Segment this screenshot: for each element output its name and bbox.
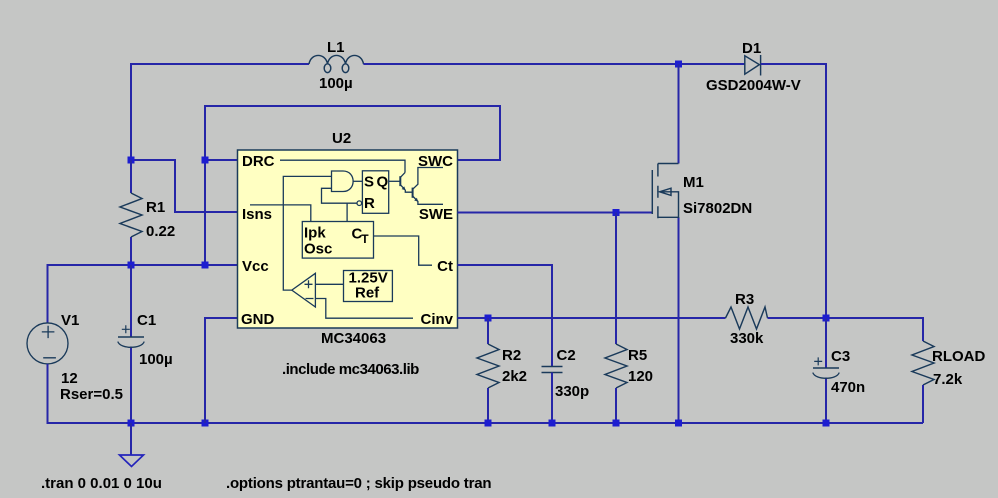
U2 internal: SR latch box — [357, 171, 389, 214]
svg-text:MC34063: MC34063 — [321, 330, 386, 347]
wire GND pin to ground rail — [205, 318, 238, 423]
node junction ground rail / R2 — [485, 420, 492, 427]
svg-text:Isns: Isns — [242, 206, 272, 223]
wire top rail right (D1 to output corner) — [761, 64, 826, 318]
svg-text:GSD2004W-V: GSD2004W-V — [706, 77, 801, 94]
svg-text:Cinv: Cinv — [420, 311, 453, 328]
svg-text:100µ: 100µ — [139, 351, 173, 368]
wire Isns connection — [131, 160, 238, 212]
svg-text:L1: L1 — [327, 39, 345, 56]
node junction ground rail / GND pin riser — [202, 420, 209, 427]
diode D1 — [745, 55, 761, 76]
node junction ground rail / R5 — [613, 420, 620, 427]
svg-text:R5: R5 — [628, 347, 647, 364]
svg-text:2k2: 2k2 — [502, 368, 527, 385]
capacitor C2 — [542, 367, 563, 373]
svg-text:M1: M1 — [683, 174, 704, 191]
svg-text:R3: R3 — [735, 291, 754, 308]
node junction Vin row / DRC riser — [202, 262, 209, 269]
svg-text:Ref: Ref — [355, 285, 380, 302]
svg-text:T: T — [361, 232, 369, 246]
svg-text:330k: 330k — [730, 330, 764, 347]
wire SWE row (SWE pin to M1 gate) — [458, 212, 653, 214]
U2 internal: comparator — [292, 273, 316, 307]
svg-text:12: 12 — [61, 370, 78, 387]
svg-text:100µ: 100µ — [319, 75, 353, 92]
U2 internal: comparator + input from Ref box — [315, 283, 343, 285]
svg-text:120: 120 — [628, 368, 653, 385]
svg-text:R1: R1 — [146, 199, 165, 216]
svg-text:RLOAD: RLOAD — [932, 348, 985, 365]
IC U2 MC34063 body — [238, 150, 458, 328]
svg-text:C2: C2 — [557, 347, 576, 364]
node junction ground rail / M1 source — [675, 420, 682, 427]
wire Cinv row (Cinv pin to R3) — [458, 317, 726, 319]
node junction ground rail / C2 — [549, 420, 556, 427]
svg-text:0.22: 0.22 — [146, 223, 175, 240]
U2 internal: AND top input from comparator output — [283, 176, 331, 290]
node junction R5 tap on SWE row — [613, 209, 620, 216]
voltage source V1 — [27, 323, 68, 364]
U2 internal: AND gate — [332, 171, 363, 192]
node junction M1 drain on top rail — [675, 61, 682, 68]
U2 internal: 1.25V Ref box — [344, 271, 393, 302]
svg-text:D1: D1 — [742, 40, 761, 57]
svg-text:V1: V1 — [61, 312, 79, 329]
capacitor C1 — [130, 265, 132, 423]
wire top rail middle (L1 to D1) — [363, 63, 744, 65]
wire V1 bottom to ground rail — [48, 364, 924, 423]
node junction ground rail / C3 — [823, 420, 830, 427]
svg-text:C1: C1 — [137, 312, 156, 329]
transistor M1 (NMOS) — [678, 64, 680, 164]
node junction DRC tap — [202, 157, 209, 164]
U2 internal: Ipk/Osc box — [302, 222, 373, 259]
resistor R1 — [130, 160, 132, 265]
svg-text:470n: 470n — [831, 379, 865, 396]
wire DRC feedback loop (x=205 riser, y=106 run, drop to SWC) — [205, 106, 500, 265]
svg-text:S: S — [364, 174, 374, 191]
svg-text:Q: Q — [377, 174, 389, 191]
svg-text:SWE: SWE — [419, 206, 453, 223]
svg-text:Ct: Ct — [437, 258, 453, 275]
svg-text:R2: R2 — [502, 347, 521, 364]
U2 internal: CT line to Ct pin — [374, 236, 433, 265]
wire DRC pin stub — [205, 159, 238, 161]
node junction Vin row / R1-C1 — [128, 262, 135, 269]
U2 internal: AND bottom input / latch R line / Ipk branch — [322, 188, 358, 221]
resistor R5 — [615, 213, 617, 345]
resistor RLOAD — [912, 341, 934, 385]
wire Ct pin to C2 — [458, 265, 553, 367]
ground symbol — [130, 423, 132, 455]
U2 internal: comparator - input to Cinv — [315, 299, 413, 319]
svg-text:Vcc: Vcc — [242, 258, 269, 275]
svg-text:C3: C3 — [831, 348, 850, 365]
svg-text:.tran 0 0.01 0 10u: .tran 0 0.01 0 10u — [41, 475, 162, 492]
resistor R2 — [487, 318, 489, 344]
svg-text:.include mc34063.lib: .include mc34063.lib — [282, 361, 419, 378]
svg-text:R: R — [364, 195, 375, 212]
wire R3 right to output node and RLOAD — [768, 318, 924, 341]
node junction R2 tap on Cinv row — [485, 315, 492, 322]
U2 internal: Isns line into Ipk box — [250, 205, 311, 222]
capacitor C3 — [825, 318, 827, 423]
svg-text:Osc: Osc — [304, 241, 332, 258]
svg-text:U2: U2 — [332, 130, 351, 147]
svg-text:330p: 330p — [555, 383, 589, 400]
svg-text:DRC: DRC — [242, 153, 275, 170]
svg-text:Si7802DN: Si7802DN — [683, 200, 752, 217]
node junction R1 top — [128, 157, 135, 164]
svg-text:Ipk: Ipk — [304, 225, 326, 242]
node junction output node (R3/C3) — [823, 315, 830, 322]
svg-text:GND: GND — [241, 311, 275, 328]
U2 internal: transistor Q2 — [413, 168, 443, 205]
inductor L1 — [309, 55, 364, 72]
U2 internal: DRC line to Q1 collector — [280, 160, 405, 172]
wire Vin row (V1 top to Vcc pin) — [48, 265, 238, 323]
U2 internal: transistor Q1 — [389, 173, 413, 193]
resistor R3 — [726, 307, 768, 329]
svg-text:7.2k: 7.2k — [933, 371, 963, 388]
svg-text:Rser=0.5: Rser=0.5 — [60, 386, 123, 403]
node junction ground rail / C1 — [128, 420, 135, 427]
svg-text:.options ptrantau=0 ; skip pse: .options ptrantau=0 ; skip pseudo tran — [226, 475, 491, 492]
wire top rail left segment (Vin corner to L1) — [131, 64, 309, 160]
